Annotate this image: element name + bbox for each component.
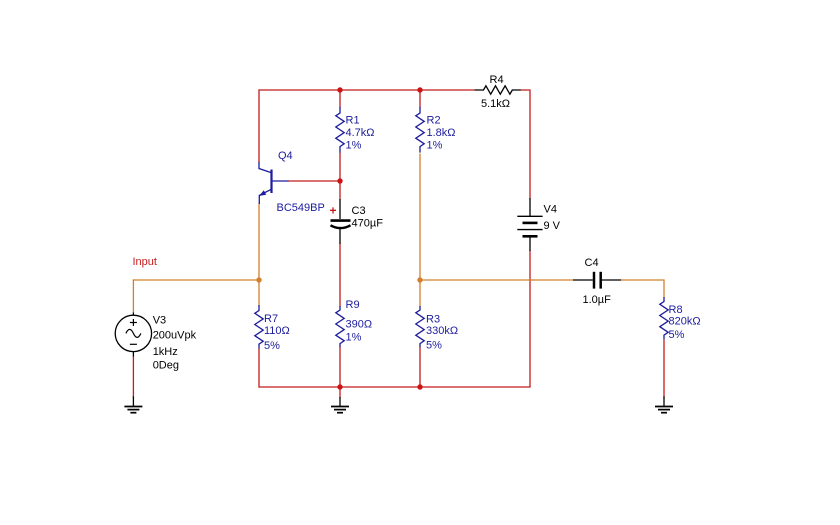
- svg-text:R2: R2: [427, 115, 441, 127]
- battery V4 plate 4 short: [523, 235, 538, 238]
- svg-text:+: +: [330, 204, 337, 218]
- wire R2 top lead: [419, 90, 421, 108]
- svg-text:1.0µF: 1.0µF: [583, 294, 612, 306]
- svg-text:5%: 5%: [264, 340, 280, 352]
- wire V3 minus to ground: [132, 356, 134, 398]
- transistor Q4 collector lead: [259, 162, 272, 173]
- svg-text:Input: Input: [133, 256, 157, 268]
- wire collector drop: [258, 89, 260, 162]
- resistor R1: [336, 107, 344, 153]
- svg-text:0Deg: 0Deg: [153, 360, 179, 372]
- svg-text:9 V: 9 V: [544, 220, 561, 232]
- battery V4 top lead: [529, 198, 531, 216]
- wire R7 bottom to rail corner: [258, 349, 260, 388]
- svg-text:390Ω: 390Ω: [346, 319, 373, 331]
- capacitor C4 left plate: [593, 272, 596, 289]
- capacitor C4 left lead: [573, 279, 593, 281]
- wire C3 to R9: [339, 244, 341, 307]
- transistor Q4 emitter lead: [259, 189, 271, 204]
- junction node R1 top rail: [337, 87, 342, 92]
- resistor R9: [336, 306, 344, 347]
- svg-text:BC549BP: BC549BP: [277, 202, 325, 214]
- wire R4 to battery top: [521, 90, 531, 199]
- svg-text:V4: V4: [544, 204, 557, 216]
- capacitor C3 top lead: [339, 199, 341, 219]
- wire V3 plus vertical: [132, 279, 134, 313]
- wire emitter drop: [258, 204, 260, 281]
- svg-text:Q4: Q4: [278, 150, 293, 162]
- wire R7 top lead: [258, 280, 260, 306]
- battery V4 bottom lead: [529, 238, 531, 252]
- battery V4 plate 1 long: [517, 215, 542, 217]
- wire base node to C3: [339, 181, 341, 200]
- wire R1 top lead: [339, 90, 341, 108]
- transistor Q4 emitter arrow: [259, 190, 266, 196]
- battery V4 plate 3 long: [517, 229, 542, 231]
- wire R3 bottom to ground rail: [419, 347, 421, 388]
- svg-text:R1: R1: [346, 115, 360, 127]
- source V3 bottom pin: [132, 352, 134, 357]
- wire R3 top lead: [419, 280, 421, 307]
- svg-text:R3: R3: [426, 314, 440, 326]
- wire battery bottom to ground rail: [529, 251, 531, 388]
- ground right: [655, 397, 673, 413]
- svg-text:5%: 5%: [669, 329, 685, 341]
- resistor R4: [475, 86, 521, 94]
- svg-text:200uVpk: 200uVpk: [153, 330, 197, 342]
- source V3 sine wave: [126, 329, 141, 337]
- wire R2 bottom to output node: [419, 154, 421, 281]
- svg-text:R9: R9: [346, 299, 360, 311]
- junction node output R2 R3: [417, 277, 422, 282]
- capacitor C3 top plate: [331, 219, 351, 222]
- source V3 plus sign: [130, 319, 137, 326]
- svg-text:R8: R8: [669, 304, 683, 316]
- svg-text:1%: 1%: [346, 332, 362, 344]
- junction node ground rail R3: [417, 384, 422, 389]
- svg-text:1.8kΩ: 1.8kΩ: [427, 127, 456, 139]
- svg-text:R7: R7: [264, 313, 278, 325]
- capacitor C3 bottom curved plate: [331, 225, 351, 228]
- svg-text:1kHz: 1kHz: [153, 346, 178, 358]
- svg-text:C3: C3: [352, 205, 366, 217]
- junction node ground rail center: [337, 384, 342, 389]
- svg-text:820kΩ: 820kΩ: [669, 316, 701, 328]
- source V3 circle: [115, 315, 151, 351]
- svg-text:C4: C4: [585, 257, 599, 269]
- ground center: [331, 397, 349, 413]
- svg-text:330kΩ: 330kΩ: [426, 325, 458, 337]
- battery V4 plate 2 short: [523, 222, 538, 225]
- svg-text:5%: 5%: [426, 340, 442, 352]
- ground left: [124, 397, 142, 413]
- wire top rail VCC: [259, 89, 475, 91]
- resistor R8: [660, 297, 668, 339]
- svg-text:470µF: 470µF: [352, 218, 384, 230]
- svg-text:R4: R4: [490, 74, 504, 86]
- svg-text:5.1kΩ: 5.1kΩ: [481, 98, 510, 110]
- wire ground stub center: [339, 387, 341, 398]
- wire bottom ground rail: [259, 386, 531, 388]
- resistor R2: [416, 107, 424, 153]
- svg-text:1%: 1%: [346, 140, 362, 152]
- junction node base R1 C3: [337, 178, 342, 183]
- wire output to C4: [420, 279, 574, 281]
- svg-text:1%: 1%: [427, 140, 443, 152]
- transistor Q4 base lead: [272, 180, 289, 182]
- svg-text:110Ω: 110Ω: [264, 325, 290, 337]
- wire R8 bottom to ground: [663, 340, 665, 399]
- resistor R7: [255, 305, 263, 349]
- capacitor C3 bottom lead: [339, 229, 341, 244]
- capacitor C4 right lead: [602, 279, 621, 281]
- junction node R2 top rail: [417, 87, 422, 92]
- wire input horizontal: [133, 279, 259, 281]
- svg-text:V3: V3: [153, 315, 166, 327]
- transistor Q2 body bar: [270, 170, 272, 194]
- wire R9 bottom to ground rail: [339, 347, 341, 388]
- wire R1 bottom to base node: [339, 153, 341, 182]
- wire base to node: [288, 180, 340, 182]
- wire C4 to R8 corner: [621, 280, 665, 298]
- resistor R3: [416, 306, 424, 347]
- source V3 top pin: [132, 313, 134, 316]
- capacitor C4 right plate: [599, 272, 602, 289]
- source V3 minus sign: [130, 343, 137, 345]
- junction node input emitter R7: [256, 277, 261, 282]
- svg-text:4.7kΩ: 4.7kΩ: [346, 127, 375, 139]
